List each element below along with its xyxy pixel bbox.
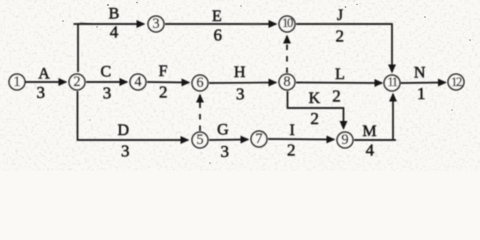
node 7 <box>251 131 267 147</box>
wire L 8-11 <box>296 82 382 85</box>
wire F 4-6 <box>147 81 189 84</box>
duration 2 of J <box>335 27 344 46</box>
scan speckles <box>62 2 471 164</box>
label A <box>38 66 50 83</box>
node 11 <box>384 75 400 91</box>
svg-text:2: 2 <box>287 141 296 160</box>
svg-text:F: F <box>159 63 168 80</box>
svg-text:3: 3 <box>37 83 46 102</box>
duration 2 of L <box>332 87 341 106</box>
label L <box>335 66 345 83</box>
wire J 10-11 <box>296 24 392 72</box>
dummy wire 8-10 dashed <box>286 36 288 73</box>
label H <box>234 64 246 81</box>
label D <box>118 122 130 139</box>
wire N 11-12 <box>401 82 446 85</box>
svg-text:8: 8 <box>283 74 290 90</box>
svg-text:4: 4 <box>134 74 142 90</box>
label M <box>362 123 376 140</box>
svg-text:1: 1 <box>417 84 426 103</box>
node 12 <box>448 74 464 90</box>
wire H 6-8 <box>209 82 276 85</box>
svg-text:2: 2 <box>335 27 344 46</box>
svg-text:3: 3 <box>220 142 229 161</box>
svg-text:2: 2 <box>332 87 341 106</box>
svg-text:2: 2 <box>159 83 168 102</box>
duration 3 of H <box>236 85 245 104</box>
label G <box>217 122 229 139</box>
svg-text:B: B <box>109 6 120 23</box>
node 3 <box>148 16 164 32</box>
duration 1 of N <box>417 84 426 103</box>
svg-text:D: D <box>118 122 130 139</box>
svg-text:2: 2 <box>73 74 80 90</box>
duration 2 of K <box>310 109 319 128</box>
svg-text:7: 7 <box>255 131 262 147</box>
label E <box>212 8 222 25</box>
label I <box>290 122 295 139</box>
wire G 5-7 <box>209 139 248 142</box>
svg-text:12: 12 <box>451 75 462 89</box>
svg-text:1: 1 <box>13 74 20 90</box>
wire K 8-9 <box>288 91 344 129</box>
node 10 <box>279 16 295 32</box>
node 9 <box>337 132 353 148</box>
wire E 3-10 <box>165 23 276 25</box>
wire D 2-5 <box>78 91 189 140</box>
duration 2 of I <box>287 141 296 160</box>
wire C 2-4 <box>86 81 127 83</box>
duration 3 of A <box>37 83 46 102</box>
svg-text:9: 9 <box>341 132 348 148</box>
svg-text:J: J <box>337 7 343 24</box>
svg-text:3: 3 <box>103 84 112 103</box>
svg-text:6: 6 <box>213 26 222 45</box>
svg-text:E: E <box>212 8 222 25</box>
svg-text:H: H <box>234 64 246 81</box>
svg-text:M: M <box>362 123 376 140</box>
svg-text:3: 3 <box>236 85 245 104</box>
svg-text:A: A <box>38 66 50 83</box>
dummy wire 5-6 dashed <box>199 95 201 131</box>
duration 3 of C <box>103 84 112 103</box>
label N <box>414 65 426 82</box>
duration 4 of M <box>366 141 375 160</box>
wire B 2-3 <box>74 23 145 72</box>
duration 3 of G <box>220 142 229 161</box>
svg-text:4: 4 <box>366 141 375 160</box>
label K <box>309 90 321 107</box>
wire A 1-2 <box>25 81 66 83</box>
paper background <box>0 0 480 171</box>
duration 2 of F <box>159 83 168 102</box>
label J <box>337 7 343 24</box>
svg-text:4: 4 <box>110 23 119 42</box>
svg-text:3: 3 <box>152 16 159 32</box>
node 2 <box>69 74 85 90</box>
wire I 7-9 <box>268 138 334 141</box>
label C <box>100 64 111 81</box>
node 4 <box>130 74 146 90</box>
svg-text:3: 3 <box>121 142 130 161</box>
svg-text:N: N <box>414 65 426 82</box>
node 1 <box>9 74 25 90</box>
wire M 9-11 <box>354 94 396 141</box>
svg-text:C: C <box>100 64 111 81</box>
node 5 <box>192 132 208 148</box>
duration 4 of B <box>110 23 119 42</box>
svg-text:K: K <box>309 90 321 107</box>
svg-text:L: L <box>335 66 345 83</box>
svg-text:11: 11 <box>387 75 397 89</box>
duration 3 of D <box>121 142 130 161</box>
svg-text:5: 5 <box>196 132 203 148</box>
svg-text:6: 6 <box>196 75 203 91</box>
svg-text:I: I <box>290 122 295 139</box>
label F <box>159 63 168 80</box>
svg-text:10: 10 <box>282 16 293 30</box>
node 8 <box>279 74 295 90</box>
label B <box>109 6 120 23</box>
svg-text:G: G <box>217 122 229 139</box>
node 6 <box>192 75 208 91</box>
duration 6 of E <box>213 26 222 45</box>
svg-text:2: 2 <box>310 109 319 128</box>
